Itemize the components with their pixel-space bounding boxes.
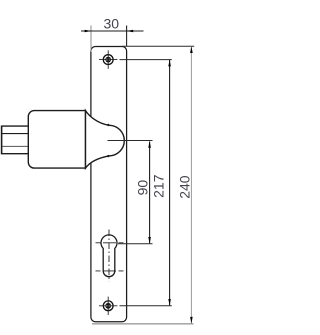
- knob body: [28, 111, 85, 169]
- svg-text:90: 90: [135, 180, 151, 196]
- 240 bottom extension (below plate bottom): [92, 323, 194, 325]
- junction blobs on bell curve: [107, 124, 109, 126]
- svg-text:30: 30: [104, 16, 120, 32]
- svg-text:217: 217: [150, 174, 166, 198]
- euro cylinder hole: [101, 235, 117, 277]
- cylinder centerlines: [96, 230, 124, 282]
- backplate outline: [91, 47, 127, 322]
- top screw hole: [99, 50, 117, 68]
- spindle shaft: [2, 126, 29, 155]
- dim 240 vertical line + arrows: [190, 47, 192, 324]
- dim 90 vertical line + arrows: [149, 142, 151, 244]
- svg-text:240: 240: [176, 175, 192, 199]
- 217 bottom extension line: [120, 305, 172, 307]
- dim 217 vertical line + arrows: [169, 60, 171, 305]
- 240 top extension (plate top extended): [122, 45, 194, 47]
- dim 30 extension lines: [90, 26, 92, 53]
- knob horizontal centerline / 90-dim top extension: [108, 140, 153, 142]
- bottom screw hole: [99, 297, 117, 315]
- dim 30 line with outside arrows: [81, 30, 144, 32]
- 90-dim bottom extension (from cylinder center): [118, 243, 153, 245]
- 217 top extension line (from top screw center): [120, 59, 172, 61]
- knob neck bell: [86, 111, 125, 169]
